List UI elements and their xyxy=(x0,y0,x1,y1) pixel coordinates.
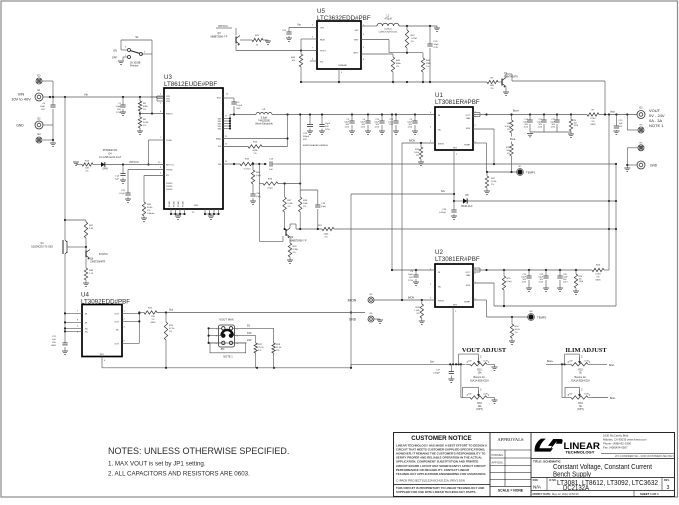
svg-text:10μF: 10μF xyxy=(40,106,46,108)
svg-text:EN/UV: EN/UV xyxy=(166,114,173,116)
svg-text:1%: 1% xyxy=(253,153,256,155)
resistor R2 xyxy=(487,80,498,83)
svg-text:ILIM: ILIM xyxy=(466,285,470,287)
svg-text:50V: 50V xyxy=(325,126,329,128)
ground for R33 xyxy=(490,397,495,399)
svg-text:10μF: 10μF xyxy=(408,274,414,276)
ground at L2 output xyxy=(436,26,438,28)
svg-text:5V: 5V xyxy=(247,324,250,328)
U3 bottom GND pins second group xyxy=(204,209,206,214)
terminal E3 right xyxy=(638,127,644,133)
svg-text:C:\PADS PROJECTS\2132A\SCH\213: C:\PADS PROJECTS\2132A\SCH\2132A_REV3.DS… xyxy=(396,479,465,483)
resistor R48 xyxy=(85,259,87,269)
svg-text:GRN: GRN xyxy=(102,168,108,171)
svg-text:0 Ohm: 0 Ohm xyxy=(244,169,251,171)
capacitor C16 xyxy=(300,189,318,191)
svg-text:Bout-: Bout- xyxy=(510,138,516,141)
svg-text:BIAS: BIAS xyxy=(216,138,222,141)
capacitor C14 xyxy=(122,165,124,174)
svg-text:50V: 50V xyxy=(237,108,241,110)
wire VFB node xyxy=(361,39,389,41)
svg-text:1%: 1% xyxy=(515,332,518,334)
svg-text:SET: SET xyxy=(100,354,105,356)
wire left bus below Q4 xyxy=(64,254,66,331)
capacitor C13 xyxy=(269,161,271,166)
svg-text:GND: GND xyxy=(338,65,343,67)
svg-text:HYST: HYST xyxy=(320,51,326,53)
svg-text:GND: GND xyxy=(650,164,658,168)
resistor R17 xyxy=(485,176,488,188)
svg-text:BST: BST xyxy=(217,98,222,100)
svg-text:Bout+: Bout+ xyxy=(547,360,554,363)
svg-text:1.00k: 1.00k xyxy=(287,203,293,205)
svg-text:PGND: PGND xyxy=(166,189,173,191)
svg-text:PG: PG xyxy=(218,146,221,148)
svg-text:1%: 1% xyxy=(258,350,261,352)
svg-text:(Opt): (Opt) xyxy=(507,280,512,283)
svg-text:Vin: Vin xyxy=(84,92,88,96)
svg-text:JP1: JP1 xyxy=(220,348,225,351)
svg-text:0.010: 0.010 xyxy=(595,274,601,276)
wire main rail to U1 xyxy=(272,114,435,116)
wire U2 SET down xyxy=(452,307,454,364)
resistor R25 xyxy=(503,270,505,276)
wire Q1 collector to output xyxy=(505,74,507,78)
svg-text:10μF: 10μF xyxy=(434,44,440,46)
diode D5 B140-13-F xyxy=(453,200,455,202)
svg-text:IMON: IMON xyxy=(348,299,357,303)
resistor R8 xyxy=(511,115,513,121)
svg-text:1%: 1% xyxy=(143,109,146,111)
svg-text:50V: 50V xyxy=(409,277,413,279)
svg-text:ILIM: ILIM xyxy=(466,128,470,130)
svg-text:LQH32CN471K23L: LQH32CN471K23L xyxy=(379,32,399,34)
svg-text:NC: NC xyxy=(438,130,442,132)
svg-text:470μH: 470μH xyxy=(384,18,391,21)
svg-text:0.010: 0.010 xyxy=(590,118,596,120)
svg-text:54.9k: 54.9k xyxy=(143,122,149,124)
wire EN/UV xyxy=(140,113,164,115)
svg-text:1.47M: 1.47M xyxy=(411,38,417,40)
wire bottom Sctr bus xyxy=(102,367,351,369)
ground for R31 xyxy=(490,363,495,365)
Linear Technology logo xyxy=(535,439,553,452)
resistor R21 xyxy=(322,227,334,230)
modify date row xyxy=(531,490,675,492)
svg-text:60.4k: 60.4k xyxy=(147,207,153,209)
wire U5 ground bus xyxy=(300,81,487,83)
svg-text:INTVCC: INTVCC xyxy=(129,160,139,164)
resistor R13 xyxy=(76,164,82,166)
svg-text:3.52k: 3.52k xyxy=(505,126,511,128)
svg-text:SYNC: SYNC xyxy=(166,140,172,142)
svg-text:ISET: ISET xyxy=(353,53,359,55)
terminal E7 TEMP1 xyxy=(517,169,522,174)
svg-text:1%: 1% xyxy=(411,41,414,43)
wire INTVCC to U3 xyxy=(105,164,164,166)
svg-text:NC: NC xyxy=(85,329,89,331)
resistor R18 xyxy=(289,237,291,243)
wire left vertical bus xyxy=(64,97,66,240)
svg-text:NC: NC xyxy=(116,330,120,332)
svg-text:TAB: TAB xyxy=(466,117,471,120)
input capacitor bank C5 xyxy=(351,115,353,122)
inductor L1 xyxy=(256,113,272,115)
ground right side xyxy=(626,165,628,168)
svg-text:TECHNOLOGY APPLICATIONS ENGINE: TECHNOLOGY APPLICATIONS ENGINEERING FOR … xyxy=(396,472,486,476)
svg-text:INTVCC: INTVCC xyxy=(166,165,175,167)
capacitor C17 xyxy=(450,364,452,371)
U3 bottom GND pins xyxy=(170,209,172,214)
wire rail pullup vertical xyxy=(299,115,301,184)
svg-text:GND: GND xyxy=(342,65,347,67)
capacitor C3 xyxy=(414,115,416,122)
svg-text:1%: 1% xyxy=(426,66,429,68)
svg-text:VOUT MAX: VOUT MAX xyxy=(219,318,234,322)
potentiometer R34 xyxy=(567,397,571,399)
svg-text:TEMP1: TEMP1 xyxy=(526,171,536,175)
svg-text:NOTE 1: NOTE 1 xyxy=(649,123,664,128)
svg-text:B140-13-F: B140-13-F xyxy=(461,205,473,208)
svg-text:SET: SET xyxy=(453,305,458,307)
svg-text:TECHNOLOGY: TECHNOLOGY xyxy=(566,451,596,455)
terminal E6 right GND xyxy=(637,161,645,169)
resistor R43 xyxy=(299,54,302,67)
svg-text:(Opt): (Opt) xyxy=(256,174,261,177)
svg-text:(Opt): (Opt) xyxy=(256,195,261,198)
svg-text:REV.: REV. xyxy=(664,479,670,482)
resistor R26 xyxy=(575,270,577,274)
svg-text:(Opt): (Opt) xyxy=(321,205,326,208)
svg-text:IMON: IMON xyxy=(408,297,415,300)
svg-text:Bout-: Bout- xyxy=(610,397,616,400)
resistor R14 xyxy=(223,146,248,148)
capacitor C1 xyxy=(122,97,124,105)
wire E3 to Vin bus xyxy=(42,80,53,82)
svg-text:May 22, 2014 10:50:20: May 22, 2014 10:50:20 xyxy=(552,492,579,496)
LED D4 xyxy=(93,164,101,166)
svg-text:IMON: IMON xyxy=(438,301,444,303)
svg-text:ILIM ADJUST: ILIM ADJUST xyxy=(565,347,607,354)
U3 pin SYNC xyxy=(148,139,164,141)
svg-text:1%: 1% xyxy=(287,206,290,208)
capacitor C11 xyxy=(543,115,545,121)
wire U4 OUT ties xyxy=(122,312,139,314)
svg-text:VFB: VFB xyxy=(354,40,359,42)
svg-text:ON: ON xyxy=(113,49,117,53)
wire FB sense line xyxy=(276,163,616,165)
svg-text:OUT: OUT xyxy=(114,322,119,324)
svg-text:VOUT ADJUST: VOUT ADJUST xyxy=(462,347,507,354)
svg-text:TR/SS: TR/SS xyxy=(166,170,173,172)
svg-text:1%: 1% xyxy=(143,125,146,127)
svg-text:MMBT3906-7-F: MMBT3906-7-F xyxy=(211,36,228,39)
wire JP1 rows to resistors xyxy=(233,327,274,329)
svg-text:Primore: Primore xyxy=(130,65,139,68)
wire cap bank bottom tie xyxy=(530,131,571,133)
wire right feedback vertical xyxy=(608,115,610,271)
capacitor C19 xyxy=(381,115,383,122)
svg-text:Bout-: Bout- xyxy=(609,364,615,367)
capacitor C30 xyxy=(250,193,255,195)
wire U2 IN xyxy=(391,115,393,271)
wire Q4 gate xyxy=(73,246,86,248)
resistor R44 xyxy=(421,58,424,72)
svg-text:CCW: CCW xyxy=(483,394,488,396)
svg-text:1μF: 1μF xyxy=(52,339,56,341)
svg-text:OUT: OUT xyxy=(465,115,470,117)
svg-text:10V to 40V: 10V to 40V xyxy=(11,97,31,102)
wire IMON vertical xyxy=(401,143,403,300)
svg-text:CCW: CCW xyxy=(584,394,589,396)
capacitor C6 xyxy=(367,115,369,122)
svg-text:SUPPLIED FOR USE WITH LINEAR T: SUPPLIED FOR USE WITH LINEAR TECHNOLOGY … xyxy=(396,490,476,494)
svg-text:35V: 35V xyxy=(303,139,307,141)
svg-text:OUT: OUT xyxy=(114,314,119,316)
svg-text:1%: 1% xyxy=(147,210,150,212)
svg-text:300μF: 300μF xyxy=(303,136,310,138)
svg-text:15V: 15V xyxy=(247,331,252,335)
svg-text:1210: 1210 xyxy=(325,129,331,131)
wire Sctr vertical xyxy=(350,194,352,368)
svg-text:1μF: 1μF xyxy=(115,179,119,181)
svg-text:LT8612EUDE#PBF: LT8612EUDE#PBF xyxy=(164,81,217,88)
svg-text:PCB DES.: PCB DES. xyxy=(492,453,504,457)
wire SW node xyxy=(230,114,256,116)
svg-text:50V: 50V xyxy=(117,109,121,111)
resistor R47 xyxy=(65,219,86,221)
svg-text:SIZE: SIZE xyxy=(533,479,539,482)
wire FB xyxy=(223,163,240,165)
svg-text:LT3081ER#PBF: LT3081ER#PBF xyxy=(435,256,480,263)
terminal E4 xyxy=(36,137,42,143)
resistor R20 xyxy=(144,175,164,177)
transistor Q4 SI2309CDS-T1-GE3 xyxy=(62,240,64,254)
svg-text:LT3081ER#PBF: LT3081ER#PBF xyxy=(435,99,480,106)
svg-text:RUN: RUN xyxy=(320,40,325,42)
title block frame xyxy=(394,433,675,497)
svg-text:CMST3904TR: CMST3904TR xyxy=(90,261,106,264)
svg-text:1μF: 1μF xyxy=(619,123,623,125)
svg-text:CW: CW xyxy=(468,361,471,363)
resistor R41 xyxy=(240,39,252,41)
inductor L2 xyxy=(361,25,377,27)
svg-text:1%: 1% xyxy=(491,184,494,186)
svg-text:Sctr: Sctr xyxy=(169,309,173,312)
svg-text:2. ALL CAPACITORS AND RESISTO: 2. ALL CAPACITORS AND RESISTORS ARE 0603… xyxy=(108,471,250,478)
capacitor C29 xyxy=(309,115,311,125)
svg-text:PGND: PGND xyxy=(166,183,173,185)
terminal E8 TEMP2 xyxy=(528,314,533,319)
wire U1 IMON xyxy=(402,142,435,144)
svg-text:1%: 1% xyxy=(596,277,599,279)
svg-text:1%: 1% xyxy=(507,153,510,155)
svg-text:OUT: OUT xyxy=(465,272,470,274)
svg-text:1.00k: 1.00k xyxy=(414,310,420,312)
wire Sctr from R22 xyxy=(157,312,365,314)
svg-text:MMBT3906-7-F: MMBT3906-7-F xyxy=(290,240,307,243)
terminal E4 right xyxy=(638,145,644,151)
svg-text:1%: 1% xyxy=(85,170,88,172)
svg-text:10.0k: 10.0k xyxy=(515,329,521,331)
svg-text:CCW: CCW xyxy=(483,361,488,363)
svg-text:VIN: VIN xyxy=(166,101,170,103)
svg-text:Wurth Electronik: Wurth Electronik xyxy=(255,123,273,126)
wire U2 OUT rail xyxy=(473,267,480,269)
title section xyxy=(531,458,675,460)
wire Q3 collector to RUN/HYST xyxy=(235,45,237,51)
svg-text:0805: 0805 xyxy=(51,345,57,347)
svg-text:1.00k: 1.00k xyxy=(414,152,420,154)
resistor R7 current sense xyxy=(587,113,599,116)
wire Q2 collector xyxy=(289,224,291,228)
potentiometer R31 xyxy=(466,363,470,365)
wire GND terminals xyxy=(43,124,53,126)
size and part number row xyxy=(531,477,675,479)
svg-text:PGND: PGND xyxy=(166,186,173,188)
wire SYNC to INTVCC xyxy=(147,140,149,165)
wire Q2 base feed xyxy=(258,184,260,242)
svg-text:muRata: muRata xyxy=(384,28,392,31)
svg-text:EMZK350ADA101MF80G: EMZK350ADA101MF80G xyxy=(303,144,328,147)
terminal E3 xyxy=(36,78,42,84)
potentiometer R33 xyxy=(466,397,470,399)
svg-text:PGND: PGND xyxy=(183,201,185,207)
svg-text:0805: 0805 xyxy=(591,124,597,126)
resistor R46 xyxy=(252,164,254,170)
resistor R24 xyxy=(165,313,167,323)
wire ISET xyxy=(361,53,393,55)
svg-text:10.0k: 10.0k xyxy=(491,181,497,183)
customer notice box xyxy=(394,484,491,486)
wire R34 to Bout- xyxy=(591,397,608,399)
ground for R41 xyxy=(267,40,269,41)
wire to R19 xyxy=(258,163,260,165)
transistor Q1 FMMT493TA xyxy=(498,81,502,83)
svg-text:4.99k: 4.99k xyxy=(252,150,258,152)
svg-text:Vout: Vout xyxy=(610,111,615,114)
wire BIAS xyxy=(223,138,288,140)
wire Vin bus xyxy=(43,96,164,98)
resistor R6 xyxy=(139,112,141,114)
resistor R5 xyxy=(139,97,141,101)
resistor R37 xyxy=(284,184,286,198)
svg-text:(OPT): (OPT) xyxy=(476,408,483,411)
svg-text:75.2k: 75.2k xyxy=(258,347,264,349)
svg-text:1210: 1210 xyxy=(116,112,122,114)
U5 pin SS stub xyxy=(310,60,317,62)
jumper JP1 shunt on middle row xyxy=(221,334,225,338)
capacitor C28 xyxy=(559,270,561,276)
svg-text:3: 3 xyxy=(667,485,670,491)
ground for S1 xyxy=(123,56,127,58)
svg-text:PGND: PGND xyxy=(174,201,176,207)
svg-text:IMON: IMON xyxy=(409,140,416,143)
svg-text:Bout+: Bout+ xyxy=(513,110,520,113)
svg-text:10μF: 10μF xyxy=(325,123,331,125)
wire ILIM bottom xyxy=(494,305,616,307)
transistor Q2 MMBT3906-7-F xyxy=(285,229,287,236)
svg-text:SET: SET xyxy=(453,148,458,150)
svg-text:Sctr: Sctr xyxy=(441,190,445,193)
svg-text:PGND: PGND xyxy=(169,201,171,207)
svg-text:TEMP: TEMP xyxy=(464,145,471,147)
svg-text:1%: 1% xyxy=(303,206,306,208)
wire U2 ILIM xyxy=(473,282,494,284)
wire U1 SET to Sctr xyxy=(453,150,455,201)
capacitor C27 xyxy=(556,115,558,121)
svg-text:NOTE 1: NOTE 1 xyxy=(223,355,233,359)
potentiometer R32 xyxy=(567,363,571,365)
wire U4 IN pins xyxy=(65,312,82,314)
svg-text:TEMP: TEMP xyxy=(464,302,471,304)
capacitor C9 xyxy=(415,270,417,275)
svg-text:DC2132A: DC2132A xyxy=(563,485,589,492)
resistor R15 xyxy=(420,143,422,147)
wire Sctr line xyxy=(351,193,454,195)
svg-text:APPROVALS: APPROVALS xyxy=(497,437,524,442)
wire U4 SET down xyxy=(101,357,103,368)
svg-text:1%: 1% xyxy=(324,237,327,239)
svg-text:GND: GND xyxy=(349,318,357,322)
resistor R28 xyxy=(273,328,275,343)
svg-text:CW: CW xyxy=(468,394,471,396)
ground at Q1 emitter xyxy=(505,87,507,93)
svg-text:CW: CW xyxy=(569,394,572,396)
svg-text:TEMP2: TEMP2 xyxy=(537,316,547,320)
svg-text:IMON: IMON xyxy=(438,144,444,146)
wire U2 IMON xyxy=(374,299,435,301)
svg-text:CW: CW xyxy=(569,361,572,363)
svg-text:SCALE = NONE: SCALE = NONE xyxy=(498,489,524,493)
svg-text:24V: 24V xyxy=(247,338,252,342)
capacitor C25 xyxy=(289,27,317,29)
svg-text:INTVCC: INTVCC xyxy=(218,24,228,28)
wire U1 TEMP xyxy=(473,142,487,144)
wire U1 OUT rail xyxy=(473,112,480,114)
resistor R22 xyxy=(144,311,157,314)
svg-text:TAB: TAB xyxy=(466,274,471,277)
resistor R27 xyxy=(255,336,257,343)
resistor R29 xyxy=(421,300,423,304)
wire R32 to Bout- xyxy=(591,363,607,365)
wire to R33 xyxy=(460,364,462,397)
ground for R13 xyxy=(73,162,79,165)
svg-text:Sctr: Sctr xyxy=(430,360,434,363)
capacitor C26 xyxy=(429,26,431,44)
svg-text:50V: 50V xyxy=(52,342,56,344)
terminal E5 IMON xyxy=(368,297,374,303)
capacitor C15 xyxy=(128,169,164,171)
capacitor C24 xyxy=(395,115,397,122)
transistor Q6 CMST3904TR xyxy=(85,251,87,258)
wire ILIM loop vertical xyxy=(615,164,617,306)
svg-text:1nF: 1nF xyxy=(269,169,273,171)
svg-text:(OPT): (OPT) xyxy=(577,408,584,411)
svg-text:1%: 1% xyxy=(293,252,296,254)
wire ILIM U2 line xyxy=(334,228,616,230)
svg-text:4.39k: 4.39k xyxy=(293,249,299,251)
svg-text:10μF: 10μF xyxy=(116,106,122,108)
svg-text:GND: GND xyxy=(16,124,24,128)
svg-text:1. MAX VOUT is set by JP1 sett: 1. MAX VOUT is set by JP1 setting. xyxy=(108,461,206,468)
svg-text:SHEET 1 OF 1: SHEET 1 OF 1 xyxy=(640,492,659,496)
wire JP1 left common xyxy=(209,327,222,329)
svg-text:S1: S1 xyxy=(135,35,139,39)
capacitor C19 set pin xyxy=(453,201,455,210)
svg-text:CUSTOMER NOTICE: CUSTOMER NOTICE xyxy=(411,435,471,442)
svg-text:1%: 1% xyxy=(169,331,172,333)
